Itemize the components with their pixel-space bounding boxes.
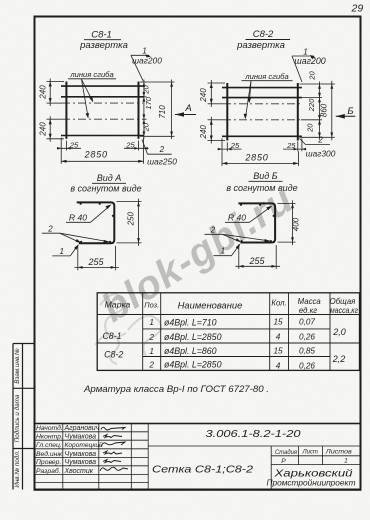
bent wire profile (pos 1) — [238, 203, 275, 242]
title underline — [84, 39, 121, 41]
margin tick mid2 — [13, 448, 35, 450]
row lines left part — [35, 431, 149, 433]
margin column left line — [12, 344, 14, 490]
title underline — [246, 39, 291, 41]
row line 1 (partial) — [143, 328, 330, 330]
col line sig/date — [130, 424, 132, 491]
bend line 2 (dash-dot) — [223, 119, 301, 121]
dim 255 — [75, 245, 120, 270]
row line 3 (partial) — [143, 356, 330, 358]
wire: left transverse — [65, 82, 67, 139]
wire: top longitudinal — [61, 85, 144, 87]
wire: bottom longitudinal — [61, 135, 144, 137]
middle/right divider — [270, 446, 272, 490]
wire: second longitudinal — [222, 97, 302, 99]
row line 2 (full) — [97, 342, 359, 344]
стадия header lines — [271, 455, 360, 457]
dim 2850 — [61, 151, 143, 164]
dim 2850 — [222, 151, 299, 166]
column line Марка/Поз — [142, 293, 144, 371]
right dim chain 20/220/20 — [300, 82, 323, 140]
header bottom line — [97, 314, 359, 316]
doc number divider — [148, 445, 360, 447]
dim 400 — [278, 200, 296, 245]
dim 860 — [322, 81, 335, 141]
dim 250 — [117, 199, 142, 246]
margin tick mid1 — [13, 387, 35, 389]
bend line 1 (dash-dot) — [223, 103, 301, 105]
title underline — [92, 182, 126, 184]
dim 25 left — [218, 138, 242, 151]
leader to bend line 2 — [246, 81, 252, 118]
watermark blok-gbi.ru — [94, 177, 301, 331]
col line names/sig — [98, 424, 100, 491]
stamp outer border — [35, 424, 361, 491]
wire: bottom longitudinal — [222, 135, 302, 137]
dim 25 left — [57, 138, 81, 151]
col line date/middle — [147, 424, 149, 491]
col line roles/names — [62, 424, 64, 491]
bent wire profile (pos 1) — [77, 202, 115, 243]
dim 25 right — [283, 138, 306, 151]
leader to bend line 1 — [82, 79, 93, 101]
dim 240 top-left — [47, 79, 65, 107]
dim 240 top-left — [208, 80, 226, 107]
wire: left transverse — [226, 83, 228, 141]
view direction arrow A — [175, 114, 196, 116]
column line Масса/Общая — [329, 293, 331, 371]
wire cross-section dots (pos 2) — [240, 204, 242, 206]
dim 240 bottom-left — [47, 116, 65, 142]
column line Наименование/Кол — [269, 293, 271, 371]
wire: right transverse — [297, 83, 299, 141]
bend line 1 (dash-dot) — [62, 102, 143, 104]
margin tick top — [13, 343, 35, 345]
dim 240 bottom-left — [208, 117, 226, 144]
margin column inner line — [22, 344, 24, 490]
dim 25 right — [124, 138, 149, 151]
right dim chain 20/170/20 — [140, 80, 147, 139]
leader to bend line 2 — [82, 79, 89, 117]
column line Поз/Наименование — [160, 293, 162, 371]
wire: right transverse — [138, 82, 140, 139]
wire cross-section dots (pos 2) — [80, 203, 82, 205]
wire: top longitudinal — [222, 87, 302, 89]
watermark cursive flourish — [95, 294, 161, 364]
title underline — [249, 180, 283, 182]
view direction arrow B — [336, 115, 356, 117]
leader to bend line 1 — [249, 81, 251, 102]
column line Кол/Масса — [288, 293, 290, 371]
dim 255 — [236, 244, 281, 269]
signatures — [100, 427, 128, 471]
wire: second longitudinal — [61, 96, 144, 98]
dim 710 — [147, 80, 175, 140]
bend line 2 (dash-dot) — [62, 118, 143, 120]
table outer border — [97, 293, 359, 371]
